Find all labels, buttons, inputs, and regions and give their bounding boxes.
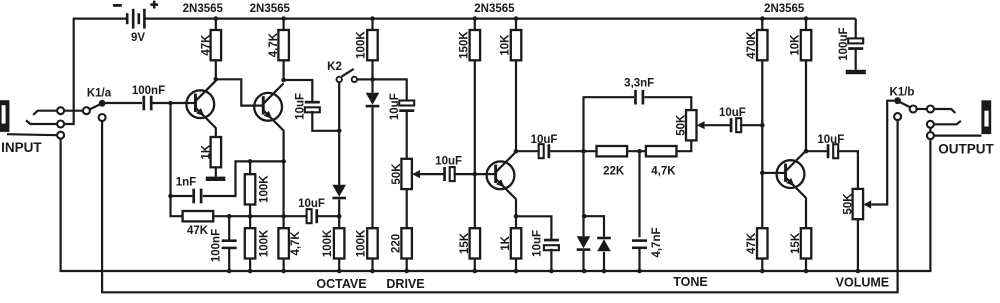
junction dots on ground rail xyxy=(227,269,860,274)
svg-text:470K: 470K xyxy=(746,31,758,59)
wire 100K D1 to ground rail xyxy=(371,259,373,272)
node D2 line junction upper xyxy=(337,129,342,134)
node rail junction at 470K xyxy=(760,16,765,21)
svg-text:100uF: 100uF xyxy=(838,27,850,60)
wire 1K to ground bar xyxy=(215,167,217,176)
capacitor 10uF output xyxy=(827,144,839,158)
wire 100K upper leads xyxy=(249,161,251,216)
resistor 47K feedback xyxy=(183,211,214,221)
resistor 10K Q4 collector load xyxy=(790,30,812,60)
wire 1nF right plate up to emitter sense line xyxy=(203,161,284,196)
wire volume pot bottom to ground rail xyxy=(857,219,859,271)
svg-text:K1/b: K1/b xyxy=(890,87,915,99)
svg-text:2N3565: 2N3565 xyxy=(474,3,515,15)
wire 10uF out to volume pot top xyxy=(837,151,858,189)
svg-text:15K: 15K xyxy=(459,232,471,254)
svg-text:K1/a: K1/a xyxy=(87,88,112,100)
battery minus sign xyxy=(113,4,122,7)
input jack J1 xyxy=(0,100,9,132)
svg-text:3,3nF: 3,3nF xyxy=(624,78,654,90)
svg-text:K2: K2 xyxy=(327,61,342,73)
svg-text:2N3565: 2N3565 xyxy=(250,3,291,15)
resistor 220 drive bottom xyxy=(401,228,412,258)
wire 100nF leads xyxy=(228,216,230,271)
wire rail to 4,7K to collector node xyxy=(283,19,285,80)
wire 220 to ground rail xyxy=(406,259,408,272)
svg-text:50K: 50K xyxy=(391,163,403,185)
svg-text:9V: 9V xyxy=(131,32,145,44)
potentiometer 50K TONE xyxy=(686,110,697,140)
svg-text:100K: 100K xyxy=(259,229,271,257)
wire Q1 collector to Q2 base xyxy=(216,79,254,105)
bypass rail (K1/a throw2 down, bottom, up to K1/b throw2) xyxy=(102,120,898,292)
svg-text:10uF: 10uF xyxy=(719,107,746,119)
wire rail to 470K down to 47K xyxy=(761,19,763,229)
wire input jack ring spring (hook) to contact xyxy=(26,120,57,124)
svg-text:100K: 100K xyxy=(259,175,271,203)
wire 10uF to Q3 base xyxy=(454,173,488,175)
wire input jack tip spring (hook) to contact xyxy=(33,111,57,115)
wire 4,7K to tone pot bottom xyxy=(677,140,692,151)
wire 4,7K emitter to ground rail xyxy=(283,259,285,272)
resistor 470K Q4 bias xyxy=(746,30,768,60)
wire Q2 emitter down to feedback line xyxy=(283,130,285,228)
svg-text:150K: 150K xyxy=(458,31,470,59)
node 100K top junction on emitter line xyxy=(248,159,253,164)
wire 100K lower leads xyxy=(249,216,251,271)
node Q3 emitter junction xyxy=(514,214,519,219)
svg-text:22K: 22K xyxy=(603,165,625,177)
svg-text:10uF: 10uF xyxy=(531,230,543,257)
svg-text:50K: 50K xyxy=(676,114,688,136)
node rail junction at 150K xyxy=(473,16,478,21)
wire rail to 150K down to 15K xyxy=(474,19,476,229)
battery plus sign xyxy=(150,1,158,9)
wire 10uF bypass to ground rail xyxy=(550,249,552,271)
potentiometer 50K DRIVE xyxy=(401,159,412,189)
wire 47K feedback to node line xyxy=(213,215,308,217)
node feedback line junction at 100nF xyxy=(227,214,232,219)
wire K2 left contact down D2 line xyxy=(338,82,340,185)
svg-text:50K: 50K xyxy=(843,193,855,215)
wire clipping jog to D4 xyxy=(584,216,605,237)
ground symbol under 1K xyxy=(206,177,226,181)
resistor 100K octave bias xyxy=(355,30,377,60)
resistor 10K Q3 collector load xyxy=(500,30,522,60)
wire Q2 collector to 10uF phase cap xyxy=(284,80,313,101)
resistor 100K under D2 xyxy=(334,228,345,258)
svg-text:10uF: 10uF xyxy=(389,93,401,120)
capacitor 100uF supply xyxy=(848,38,863,50)
wire 15K to ground rail xyxy=(805,259,807,272)
svg-text:10K: 10K xyxy=(790,34,802,56)
capacitor 10uF tone in xyxy=(539,144,551,158)
node rail junction at 4,7K xyxy=(281,16,286,21)
transistor Q1 2N3565 xyxy=(186,81,216,128)
potentiometer TONE wiper arrow xyxy=(697,121,705,129)
svg-text:220: 220 xyxy=(391,234,403,253)
svg-text:47K: 47K xyxy=(200,34,212,56)
wire rail to 100K to octave node xyxy=(371,19,373,93)
svg-text:2N3565: 2N3565 xyxy=(764,3,805,15)
wire drive pot bottom to 220 xyxy=(406,189,408,228)
node rail junction at 100K octave xyxy=(370,16,375,21)
switch K1/a arm xyxy=(90,105,99,110)
resistor 1K Q1 emitter xyxy=(200,137,221,167)
svg-text:INPUT: INPUT xyxy=(1,140,42,155)
svg-text:10uF: 10uF xyxy=(817,134,844,146)
wire drive wiper to 10uF coupling xyxy=(420,173,444,175)
wire D2 to 100K xyxy=(338,199,340,228)
wire 3,3nF branch left up xyxy=(584,97,635,151)
svg-text:VOLUME: VOLUME xyxy=(836,276,889,290)
diode D3 clipper xyxy=(577,236,591,251)
capacitor 100nF feedback bypass xyxy=(222,239,237,249)
svg-text:15K: 15K xyxy=(790,232,802,254)
svg-text:4,7K: 4,7K xyxy=(268,32,280,57)
svg-text:10uF: 10uF xyxy=(531,134,558,146)
resistor 15K Q4 emitter xyxy=(801,228,812,258)
capacitor 10uF tone out xyxy=(730,118,742,132)
wire 10uF down to D2 line xyxy=(312,111,339,131)
wire K1/b throw1 to output tip contact xyxy=(917,108,927,110)
switch K1/a common pole dot xyxy=(99,100,106,107)
resistor 100K under D1 xyxy=(367,228,378,258)
wire Q1 base node down to 47K feedback xyxy=(171,103,183,216)
capacitor C1 100nF input xyxy=(142,96,152,111)
wire 100uF to ground bar xyxy=(855,50,857,70)
node rail junction at 47K xyxy=(214,16,219,21)
capacitor 1nF feedback xyxy=(192,189,202,204)
wire Q3 emitter down to 1K xyxy=(515,199,517,228)
wire input jack sleeve to contact xyxy=(7,134,57,135)
wire octave node to 10uF drive cap xyxy=(373,79,407,102)
wire C1 to Q1 base node xyxy=(152,102,186,104)
node Q4 input junction xyxy=(760,123,765,128)
resistor 4,7K Q2 collector load xyxy=(268,30,289,60)
transistor Q3 2N3565 xyxy=(486,152,516,199)
node output tip contact xyxy=(927,106,934,113)
wire clipping branch down xyxy=(582,151,584,236)
resistor 100K divider lower xyxy=(245,228,256,258)
switch K1/b throw 1 contact xyxy=(910,106,917,113)
diode D2 octave xyxy=(332,185,346,200)
node D2 line junction lower xyxy=(337,214,342,219)
ground rail (sleeve down, bottom rail, up to output sleeve) xyxy=(61,139,931,271)
wire output ring spring (hook) xyxy=(934,121,961,125)
wire 100K D2 to ground rail xyxy=(338,259,340,272)
svg-text:4,7K: 4,7K xyxy=(651,165,676,177)
node feedback line junction at 100K divider xyxy=(248,214,253,219)
node output sleeve contact xyxy=(927,132,934,139)
wire base line to 1nF xyxy=(171,195,193,197)
wire Q4 emitter down to 15K xyxy=(805,198,807,229)
svg-text:100K: 100K xyxy=(355,31,367,59)
node Q3 collector junction xyxy=(514,149,519,154)
svg-text:4,7nF: 4,7nF xyxy=(651,227,663,257)
svg-text:1K: 1K xyxy=(500,235,512,250)
node Q3 base bias junction xyxy=(473,172,478,177)
svg-text:10K: 10K xyxy=(500,34,512,56)
transistor Q2 2N3565 xyxy=(254,83,284,130)
wire Q4 collector to 10uF out xyxy=(806,150,827,152)
potentiometer DRIVE wiper arrow xyxy=(412,170,420,178)
switch K1/a throw 1 contact xyxy=(83,107,90,114)
switch K1/b throw 2 contact xyxy=(894,113,901,120)
wire 15K to ground rail xyxy=(474,259,476,272)
wire 10uF to 22K xyxy=(550,150,597,152)
resistor 4,7K Q2 emitter xyxy=(278,228,289,258)
potentiometer 50K VOLUME xyxy=(853,189,864,219)
potentiometer VOLUME wiper arrow xyxy=(863,200,871,208)
resistor 47K Q1 collector load xyxy=(200,30,221,60)
wire +9V top rail (battery plus to right corner into 100uF) xyxy=(146,18,856,20)
wire rail to 47K xyxy=(215,19,217,30)
wire 4,7nF branch down xyxy=(638,151,640,237)
resistor 4,7K tone xyxy=(646,146,677,156)
wire Q3 emitter to 10uF bypass xyxy=(516,216,551,239)
svg-text:OCTAVE: OCTAVE xyxy=(316,277,366,291)
node octave summing junction xyxy=(370,77,375,82)
output jack J2 xyxy=(981,100,991,134)
switch K2 contact left xyxy=(337,77,342,82)
wire 4,7nF to ground rail xyxy=(638,248,640,271)
wire rail to 10K down to Q4 collector xyxy=(805,19,807,152)
svg-text:OUTPUT: OUTPUT xyxy=(938,142,994,157)
switch K1/a throw 2 contact xyxy=(99,114,106,121)
wire battery minus to left rail corner down to input jack ring contact xyxy=(64,19,126,124)
diode D1 octave xyxy=(366,93,380,108)
svg-text:100K: 100K xyxy=(322,229,334,257)
node output ring contact xyxy=(927,121,934,128)
svg-text:100K: 100K xyxy=(355,229,367,257)
capacitor 3,3nF tone xyxy=(634,90,644,105)
svg-text:47K: 47K xyxy=(746,232,758,254)
wire emitter 10uF line to D2 line xyxy=(318,215,340,217)
diode D4 clipper xyxy=(597,237,611,252)
node clipping jog junction xyxy=(582,214,587,219)
node 1nF tap on base line xyxy=(168,194,173,199)
switch K2 contact right xyxy=(352,77,357,82)
capacitor 10uF Q3 emitter bypass xyxy=(544,239,559,251)
node tone line left junction xyxy=(581,149,586,154)
battery BT1 9V xyxy=(127,9,144,29)
wire rail to 10K down to collector node xyxy=(515,19,517,152)
switch K1/b arm xyxy=(900,102,910,107)
wire 3,3nF to tone pot top xyxy=(644,97,691,110)
svg-text:10uF: 10uF xyxy=(294,93,306,120)
resistor 22K tone xyxy=(597,146,628,156)
capacitor 10uF emitter phase xyxy=(307,209,319,223)
svg-text:TONE: TONE xyxy=(673,275,708,289)
svg-text:10uF: 10uF xyxy=(435,155,462,167)
wire K1/a common to C1 xyxy=(102,102,142,104)
ground symbol under 100uF xyxy=(846,70,866,74)
wire Q3 collector to 10uF tone in xyxy=(516,150,540,152)
svg-text:DRIVE: DRIVE xyxy=(386,277,424,291)
node rail junction at 10K xyxy=(514,16,519,21)
capacitor 4,7nF tone xyxy=(632,239,647,249)
svg-text:4,7K: 4,7K xyxy=(290,231,302,256)
node Q4 base junction xyxy=(760,171,765,176)
resistor 150K Q3 bias upper xyxy=(458,30,480,60)
svg-text:100nF: 100nF xyxy=(132,85,165,97)
capacitor 10uF drive coupling xyxy=(443,167,455,181)
switch K2 arm xyxy=(342,69,354,77)
svg-text:10uF: 10uF xyxy=(298,198,325,210)
wire tone wiper to 10uF xyxy=(705,124,731,126)
wire volume wiper up to K1/b xyxy=(871,101,894,205)
node Q1 base junction xyxy=(168,101,173,106)
node rail junction at 10K Q4 xyxy=(804,16,809,21)
resistor 100K divider upper xyxy=(245,174,256,204)
transistor Q4 2N3565 xyxy=(776,151,806,198)
svg-text:2N3565: 2N3565 xyxy=(183,3,224,15)
wire output tip spring (hook) xyxy=(934,109,955,113)
node feedback line junction at 4,7K emitter resistor xyxy=(281,214,286,219)
node Q4 collector junction xyxy=(804,149,809,154)
node Q1 collector junction xyxy=(214,77,219,82)
resistor 15K Q3 bias lower xyxy=(470,228,481,258)
resistor 1K Q3 emitter xyxy=(511,228,522,258)
svg-text:47K: 47K xyxy=(187,225,209,237)
wire 10uF to drive pot xyxy=(406,112,408,159)
svg-text:100nF: 100nF xyxy=(211,229,223,262)
wire Q1 emitter to 1K xyxy=(215,128,217,138)
resistor 47K Q4 lower bias xyxy=(757,228,768,258)
wire ring-sleeve link xyxy=(929,128,931,132)
svg-text:1K: 1K xyxy=(200,144,212,159)
node input ring contact xyxy=(57,121,64,128)
node input tip contact xyxy=(57,107,64,114)
wire 47K to ground rail xyxy=(761,259,763,272)
wire output sleeve to jack xyxy=(934,135,982,137)
node Q2 collector junction xyxy=(281,78,286,83)
wire D3 to ground rail xyxy=(582,251,584,271)
node tone mid junction xyxy=(637,149,642,154)
capacitor 10uF collector phase xyxy=(305,101,320,113)
switch K1/b common pole dot xyxy=(894,97,901,104)
node Q2 emitter junction xyxy=(281,159,286,164)
wire 1K to ground rail xyxy=(515,259,517,272)
wire D1 to 100K lower xyxy=(371,108,373,229)
node input sleeve contact xyxy=(57,132,64,139)
wire 10uF tone out to Q4 bias line xyxy=(740,124,762,126)
capacitor 10uF octave out xyxy=(399,101,414,113)
wire 22K to 4,7K xyxy=(627,150,646,152)
wire D4 to ground rail xyxy=(603,252,605,271)
wire rail corner down to 100uF xyxy=(855,19,857,40)
wire base junction to Q4 xyxy=(762,172,777,174)
wire K2 right contact to octave node xyxy=(358,78,373,80)
svg-text:1nF: 1nF xyxy=(176,177,196,189)
wire 47K to Q1 collector node xyxy=(215,60,217,79)
wire tip contact to K1/a throw xyxy=(64,110,83,112)
